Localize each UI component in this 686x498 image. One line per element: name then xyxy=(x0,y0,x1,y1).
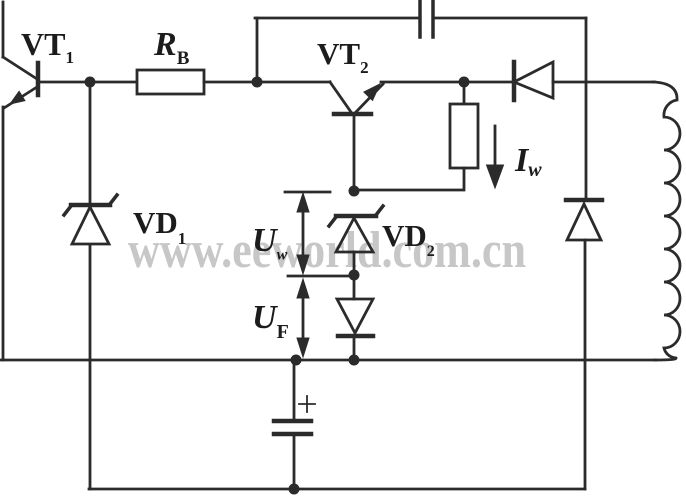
transistor VT1 xyxy=(3,57,38,108)
wire: VD1 branch (node down through zener to bottom rail) xyxy=(89,82,92,205)
wire: mid rail xyxy=(0,359,656,362)
svg-text:Iw: Iw xyxy=(514,142,542,181)
wire: diode to mid rail xyxy=(353,336,356,360)
wire: left rail top (VT1 collector feed) xyxy=(2,2,5,57)
svg-text:UF: UF xyxy=(252,299,289,343)
wire: node to diode VD5 xyxy=(353,275,356,299)
capacitor C2 (electrolytic) xyxy=(274,421,311,434)
node: mid rail / dimension foot xyxy=(291,355,302,366)
wire: mid rail down to capacitor C2 xyxy=(293,360,296,419)
diode VD5 (temperature comp, pointing down) xyxy=(337,299,373,336)
wire: top rail right segment xyxy=(433,17,586,20)
wire: bottom rail xyxy=(89,488,585,491)
wire: right riser (top rail down to VD4) xyxy=(585,18,588,200)
wire: RB to VT2 collector xyxy=(204,81,330,84)
svg-text:VT1: VT1 xyxy=(21,26,74,67)
inductor W (excitation winding) xyxy=(653,82,680,360)
diode VD4 (right branch, pointing up) xyxy=(566,200,602,240)
wire: VT2 emitter to diode VD3 xyxy=(381,81,514,84)
wire: VT1 base to RB xyxy=(40,81,137,84)
wire: VD2 to node xyxy=(353,252,356,275)
wire: feedback resistor to VT2 base node xyxy=(354,168,464,190)
node: bottom rail / capacitor xyxy=(289,484,300,495)
label + (capacitor polarity) xyxy=(299,396,315,412)
node: junction at top-rail riser xyxy=(252,77,263,88)
capacitor C1 (top coupling) xyxy=(420,1,433,37)
diode VD3 (freewheel, pointing left) xyxy=(514,62,553,100)
wire: VD3 to winding xyxy=(553,81,655,84)
resistor RB xyxy=(137,70,204,94)
dimension Uw (tick bars and double arrow) xyxy=(285,192,355,276)
svg-text:www.eeworld.com.cn: www.eeworld.com.cn xyxy=(128,222,526,279)
node: junction at base/VD1 branch xyxy=(85,77,96,88)
wire: VD4 down to bottom rail xyxy=(584,240,587,489)
current arrow Iw xyxy=(487,126,504,188)
node: VT2 base / VD2 / resistor junction xyxy=(349,186,360,197)
node: diode chain to mid rail xyxy=(349,355,360,366)
dimension UF (double arrow) xyxy=(297,279,309,357)
node: junction at feedback resistor xyxy=(459,77,470,88)
wire: riser to top rail xyxy=(256,18,259,82)
transistor VT2 xyxy=(330,82,383,114)
resistor (feedback, unlabeled) xyxy=(450,104,478,168)
wire: node down to feedback resistor xyxy=(463,82,466,104)
wire: capacitor C2 to bottom rail xyxy=(293,436,296,489)
wire: left rail (emitter down to mid rail) xyxy=(2,107,5,360)
zener VD1 xyxy=(64,195,117,244)
zener VD2 xyxy=(329,206,383,252)
svg-text:VT2: VT2 xyxy=(317,36,369,77)
wire: VT2 base down to node xyxy=(353,116,356,191)
wire: top rail left segment xyxy=(255,17,420,20)
node: junction between VD2 and diode xyxy=(349,270,360,281)
svg-text:RB: RB xyxy=(153,26,190,69)
